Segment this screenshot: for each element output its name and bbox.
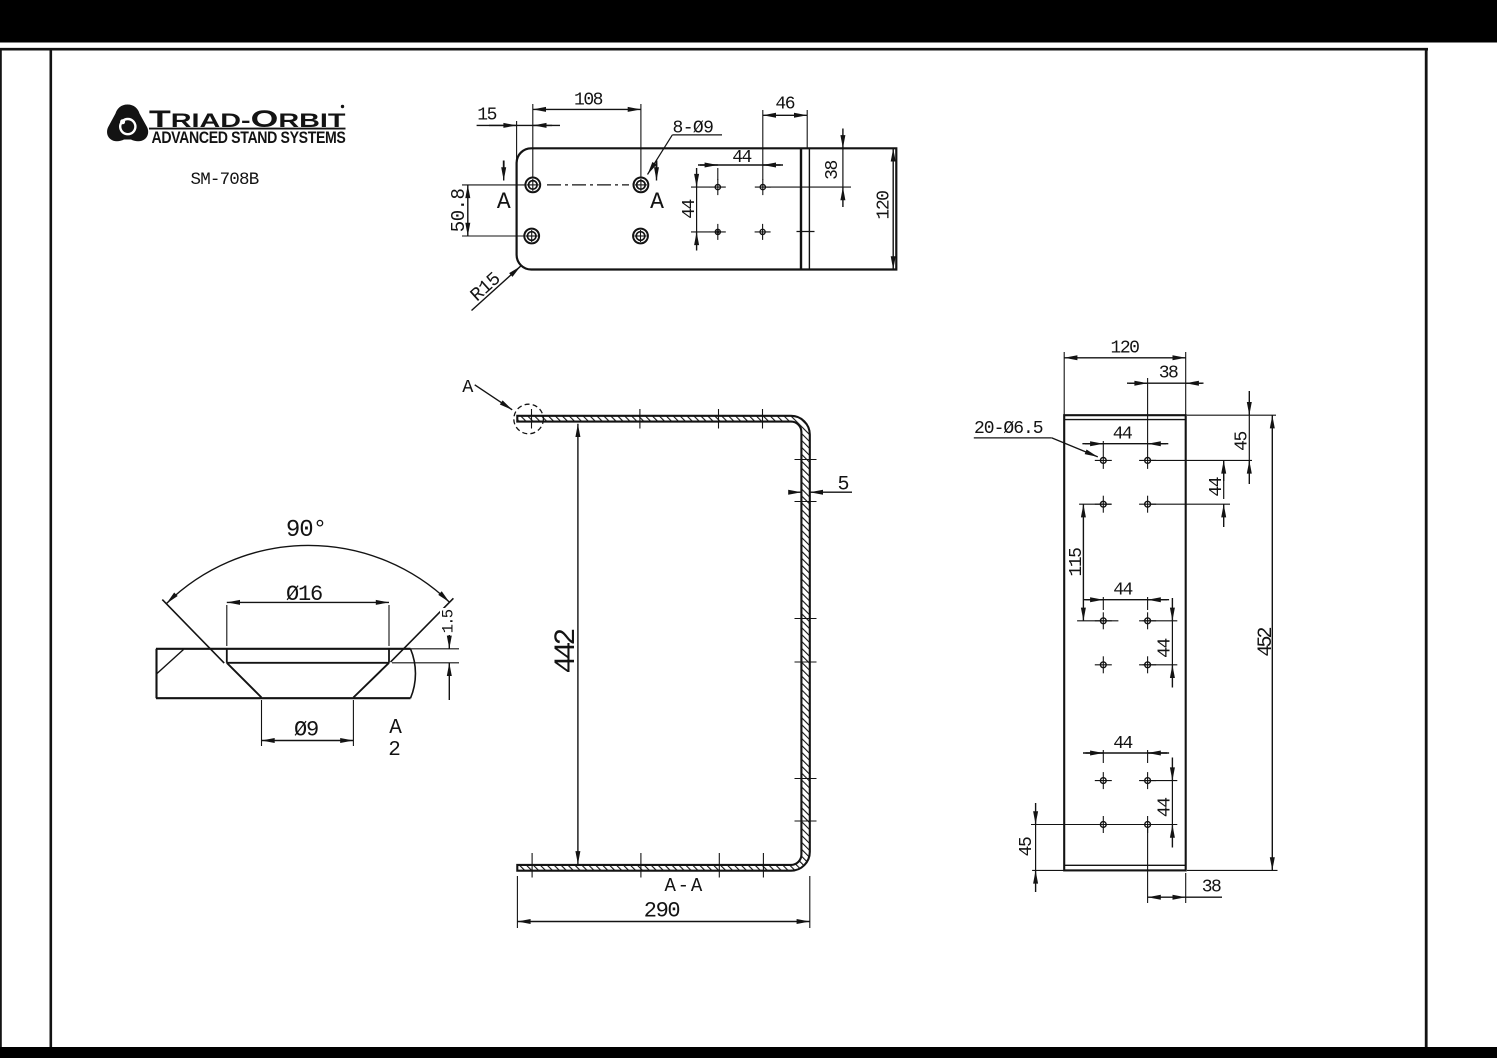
- svg-text:452: 452: [1255, 627, 1278, 656]
- section cutting arrow A left: [497, 161, 511, 216]
- dimension 1.5 countersink depth: [392, 608, 459, 700]
- part number SM-708B: [191, 170, 259, 190]
- dimension 44 right view rows3 horizontal: [1083, 581, 1169, 611]
- svg-text:38: 38: [1159, 364, 1178, 384]
- dimension 108 top: [533, 91, 641, 179]
- detail countersink profile: [227, 649, 389, 698]
- svg-text:38: 38: [1202, 878, 1221, 898]
- border frame left edge line: [0, 49, 2, 1047]
- svg-text:44: 44: [1113, 581, 1132, 601]
- detail 90-degree cone arms: [162, 598, 453, 663]
- svg-text:38: 38: [823, 161, 843, 180]
- top view bend line inner: [808, 148, 810, 269]
- dimension 44 right view rows5 horizontal: [1083, 734, 1169, 763]
- radius label R15 with leader: [466, 266, 520, 310]
- countersunk hole H3: [524, 229, 539, 244]
- border frame right edge line: [1425, 49, 1428, 1047]
- svg-text:46: 46: [775, 95, 794, 115]
- label 20-Ø6.5 with leader: [974, 419, 1098, 457]
- dimension 44 right view rows3-4: [1143, 598, 1178, 688]
- svg-text:108: 108: [574, 91, 603, 111]
- svg-text:A: A: [389, 717, 402, 740]
- dimension 44 top-view horizontal: [698, 148, 783, 180]
- centerline H1-H2 dash-dot: [547, 184, 629, 186]
- sheet top scan bar: [0, 0, 1497, 43]
- right view hole row3 col2: [1139, 612, 1156, 629]
- right view plate outline: [1064, 415, 1186, 870]
- svg-text:115: 115: [1067, 548, 1087, 577]
- svg-text:44: 44: [1156, 798, 1176, 817]
- svg-text:Ø9: Ø9: [294, 718, 318, 743]
- svg-text:45: 45: [1017, 837, 1037, 856]
- section wall hole centerline tick 1: [795, 459, 817, 461]
- dimension 90 degree angle: [167, 517, 450, 604]
- right view hole row4 col1: [1095, 656, 1112, 673]
- detail plate cross-section band: [156, 649, 415, 698]
- right view hole row6 col1: [1095, 816, 1112, 833]
- svg-text:A: A: [462, 377, 474, 398]
- svg-text:ADVANCED STAND SYSTEMS: ADVANCED STAND SYSTEMS: [152, 129, 347, 147]
- detail boundary circle A: [514, 404, 544, 434]
- svg-text:90°: 90°: [286, 517, 326, 544]
- svg-text:2: 2: [388, 739, 401, 762]
- section cutting arrow A right: [650, 161, 664, 216]
- svg-text:15: 15: [477, 106, 496, 126]
- svg-text:44: 44: [680, 200, 700, 219]
- dimension 44 right view rows1 horizontal: [1082, 425, 1168, 453]
- svg-text:A: A: [650, 189, 664, 215]
- right view hole row1 col1: [1095, 452, 1112, 469]
- section top plate hole centerline tick 1: [531, 409, 533, 429]
- svg-text:8-Ø9: 8-Ø9: [673, 119, 714, 139]
- svg-text:45: 45: [1233, 432, 1253, 451]
- section bottom plate hole centerline tick 1: [531, 853, 533, 878]
- section wall hole centerline tick 5: [795, 778, 817, 780]
- svg-text:50.8: 50.8: [448, 188, 470, 232]
- logo TRIAD-ORBIT wordmark: [149, 105, 345, 133]
- section top plate hole centerline tick 2: [639, 409, 641, 429]
- dimension 44 right view rows1-2: [1151, 460, 1230, 527]
- dimension 44 top-view vertical: [680, 168, 710, 251]
- border frame top line: [0, 48, 1428, 51]
- right view hole row3 col1: [1095, 612, 1112, 629]
- dimension 5 wall thickness: [789, 474, 853, 497]
- svg-text:Ø16: Ø16: [286, 582, 322, 607]
- section wall hole centerline tick 4: [795, 661, 817, 663]
- svg-text:44: 44: [1113, 425, 1132, 445]
- detail label A with leader: [462, 377, 512, 410]
- top view bend line tick: [797, 231, 815, 233]
- svg-text:290: 290: [644, 899, 680, 924]
- sheet bottom scan bar: [0, 1047, 1497, 1058]
- small hole S1: [710, 179, 726, 195]
- section top plate hole centerline tick 3: [718, 409, 720, 429]
- svg-text:20-Ø6.5: 20-Ø6.5: [974, 419, 1043, 439]
- svg-text:44: 44: [1113, 734, 1132, 754]
- countersunk hole H2: [634, 178, 649, 193]
- svg-text:120: 120: [875, 191, 895, 220]
- right view bottom bend line: [1064, 864, 1186, 866]
- section wall hole centerline tick 3: [795, 618, 817, 620]
- small hole S4: [755, 224, 771, 240]
- dimension Ø16 detail: [227, 582, 389, 646]
- svg-text:SM-708B: SM-708B: [191, 170, 259, 190]
- border margin column line: [49, 49, 52, 1047]
- dimension 45 right view bottom: [1017, 803, 1177, 892]
- dimension 115 right view: [1067, 504, 1118, 621]
- svg-text:A: A: [497, 189, 511, 215]
- svg-text:442: 442: [550, 630, 584, 674]
- dimension 45 right view top: [1151, 391, 1276, 484]
- svg-text:120: 120: [1111, 339, 1140, 359]
- dimension 38 top view: [766, 129, 851, 208]
- svg-text:1.5: 1.5: [440, 609, 458, 633]
- dimension 38 right view top: [1127, 364, 1204, 453]
- label 8-Ø9 with leader: [648, 119, 723, 175]
- right view hole row6 col2: [1139, 816, 1156, 833]
- svg-text:44: 44: [732, 148, 751, 168]
- dimension 120 right view: [1064, 339, 1186, 416]
- logo Triad-Orbit knob icon: [107, 105, 148, 142]
- dimension 46 top: [763, 95, 807, 180]
- section bottom plate hole centerline tick 4: [762, 853, 764, 878]
- dimension 15 top left: [477, 106, 560, 163]
- dimension 50.8 left: [448, 185, 525, 236]
- svg-text:A-A: A-A: [664, 875, 704, 897]
- small hole S3: [710, 224, 726, 240]
- dimension 442 section height: [550, 424, 584, 865]
- section bottom plate hole centerline tick 2: [640, 853, 642, 878]
- svg-text:44: 44: [1156, 639, 1176, 658]
- top view bend line outer: [800, 148, 802, 269]
- right view hole row4 col2: [1139, 656, 1156, 673]
- right view hole row2 col1: [1095, 496, 1112, 513]
- right view hole row5 col1: [1095, 772, 1112, 789]
- dimension 452 right view: [1187, 415, 1278, 870]
- section bottom plate hole centerline tick 3: [718, 853, 720, 878]
- countersunk hole H4: [633, 229, 648, 244]
- logo ADVANCED STAND SYSTEMS tagline: [152, 129, 347, 147]
- dimension 38 right view bottom: [1148, 825, 1222, 904]
- right view hole row1 col2: [1139, 452, 1156, 469]
- logo wordmark underline: [149, 128, 346, 130]
- svg-text:44: 44: [1207, 477, 1227, 496]
- top view plate outline R15: [517, 148, 897, 269]
- dimension 290 section width: [517, 876, 809, 928]
- right view top bend line: [1064, 419, 1186, 421]
- right view hole row5 col2: [1139, 772, 1156, 789]
- section label A-A: [664, 875, 704, 897]
- section A-A C-channel profile (hatched): [517, 416, 810, 871]
- section wall hole centerline tick 6: [795, 820, 817, 822]
- detail hatch line left: [157, 650, 184, 674]
- countersunk hole H1: [525, 178, 540, 193]
- small hole S2: [755, 179, 771, 195]
- section top plate hole centerline tick 4: [762, 409, 764, 429]
- dimension 44 right view rows5-6: [1143, 758, 1178, 848]
- right view hole row2 col2: [1139, 496, 1156, 513]
- detail view label A over 2: [388, 717, 402, 762]
- dimension 120 top view: [875, 148, 895, 269]
- section wall hole centerline tick 2: [795, 501, 817, 503]
- svg-text:5: 5: [837, 474, 849, 497]
- dimension Ø9 detail: [262, 700, 354, 746]
